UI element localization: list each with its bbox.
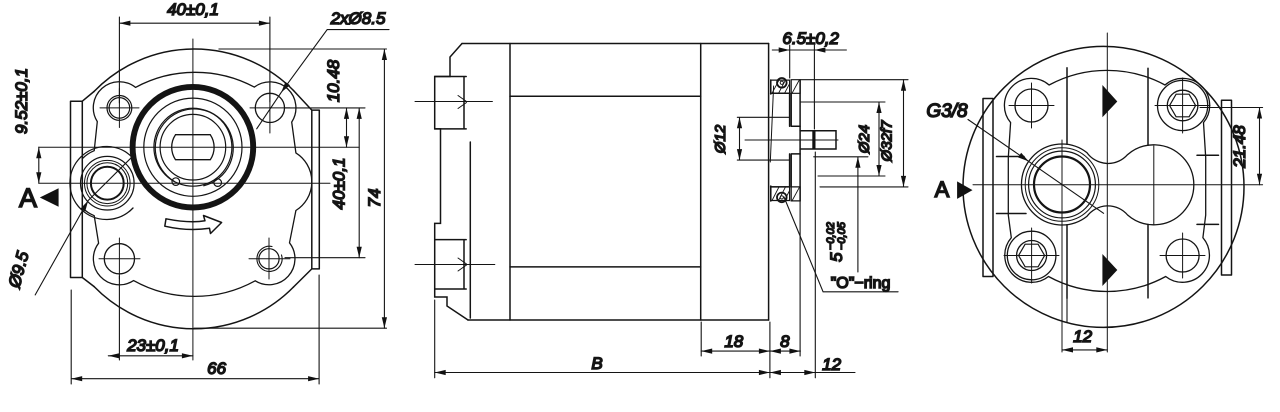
hole TL crosshair [1009, 83, 1054, 128]
B arrow left [435, 370, 446, 375]
left mounting tab [71, 92, 95, 287]
body circle [963, 46, 1244, 327]
circlip eyelet left [172, 178, 180, 186]
flange face double line [769, 44, 771, 321]
o-ring leader slant line [770, 86, 773, 162]
screw bottom-left head [1017, 241, 1047, 271]
74 arrows [382, 49, 387, 60]
shaft horizontal centerline [39, 146, 359, 148]
dim 74 vertical line [383, 49, 385, 328]
circlip open ring [151, 104, 239, 189]
top port axis [415, 101, 492, 103]
arrowheads right view [957, 85, 1262, 353]
bolt hole top-left inner [109, 98, 130, 119]
flange face clover outline [82, 72, 312, 296]
extension line bottom holes right [285, 257, 365, 259]
cover boss bottom chamfer marks [458, 258, 467, 271]
svg-text:2xØ8.5: 2xØ8.5 [330, 9, 386, 28]
dim line Ø32f7 [903, 80, 905, 187]
screw top-right hex [1170, 94, 1196, 117]
port vertical centerline [1061, 140, 1063, 352]
B arrow right [759, 370, 770, 375]
5 arrow up [855, 157, 860, 168]
body/flange joint [700, 44, 702, 321]
port outer circle [1029, 151, 1096, 218]
66 arrows [71, 376, 82, 381]
bearing seat thick ring [133, 87, 254, 208]
top-right hole crosshair [250, 83, 290, 133]
rear cover profile [435, 44, 468, 321]
svg-text:"O"−ring: "O"−ring [831, 275, 891, 292]
extension line top holes right [285, 107, 365, 109]
2xØ8.5 leader arrow [281, 82, 290, 93]
port bore circle [1034, 157, 1090, 213]
seal ring [144, 98, 242, 196]
Ø32f7 arrows [901, 80, 906, 91]
o-ring leader [784, 197, 898, 292]
bolt hole bottom-right [1166, 239, 1199, 272]
screw bottom-left hex [1019, 244, 1045, 267]
shaft with flats [172, 135, 214, 160]
vertical centerline [192, 39, 194, 360]
o-ring groove bottom block [771, 187, 790, 201]
Ø9.5 leader arrow [80, 201, 88, 212]
Ø24 arrows [876, 102, 881, 113]
cover inner face line [469, 142, 471, 318]
ext line flange top right [801, 79, 908, 81]
section arrow A left [40, 188, 59, 206]
svg-text:Ø12: Ø12 [712, 124, 729, 154]
leader G3/8 [968, 120, 1104, 214]
rear body circle top arc [94, 49, 294, 91]
dim 12 bottom [1062, 298, 1107, 350]
svg-text:8: 8 [780, 332, 790, 351]
pilot edges [771, 93, 790, 187]
arrowheads left view [36, 21, 387, 382]
svg-text:21.48: 21.48 [1230, 125, 1249, 169]
40 vert arrows [357, 108, 362, 119]
dimensions middle view [435, 45, 908, 378]
port horizontal centerline [39, 182, 330, 184]
bottom port axis [415, 264, 495, 266]
cover/body joint [509, 44, 511, 321]
G3/8 leader arrow [1018, 153, 1029, 162]
dim 21.48 [1200, 108, 1263, 185]
ext lines bottom dims [701, 152, 815, 378]
svg-text:G3/8: G3/8 [926, 101, 968, 122]
screw bottom-left washer [1007, 231, 1056, 280]
dimensions left view [35, 17, 389, 384]
6.5 arrows outside [779, 47, 790, 52]
dim 5 line [814, 157, 868, 272]
cover boss bottom joint [435, 240, 467, 289]
bottom-right hole crosshair [249, 238, 290, 279]
groove counter block bottom [791, 187, 800, 201]
ext line 24 top [800, 101, 885, 103]
svg-text:40±0,1: 40±0,1 [167, 0, 219, 19]
svg-text:23±0,1: 23±0,1 [126, 336, 179, 355]
arrowheads middle view [435, 47, 906, 375]
extension for 74 bottom [194, 327, 387, 329]
screw BL crosshair [1004, 228, 1059, 283]
o-ring bottom circle [777, 193, 787, 203]
horizontal centerline [973, 184, 1263, 186]
dim 18 and 8 line [701, 350, 800, 352]
o-ring top hatch [772, 80, 790, 93]
centerlines left view [39, 39, 359, 360]
dim Ø12 [737, 117, 789, 160]
face channel bottom edges [1067, 224, 1148, 298]
svg-text:12: 12 [1073, 327, 1092, 346]
dim 10.48 line [346, 108, 348, 147]
shaft stub [800, 131, 836, 149]
o-ring groove top block [771, 80, 790, 93]
dim line Ø24 [878, 102, 880, 176]
ext line 24 bottom [818, 175, 885, 177]
port thread circle b [87, 163, 128, 204]
23 arrows [108, 353, 119, 358]
dim 23±0,1 [108, 276, 193, 360]
svg-text:Ø24: Ø24 [856, 125, 873, 154]
svg-text:5: 5 [827, 252, 846, 262]
right lobe vertical centerline [1153, 146, 1155, 224]
vertical centerline [1106, 33, 1108, 352]
rotation direction arrow [165, 216, 222, 234]
side slot left [997, 157, 1027, 214]
bolt hole bottom-right counterbore arc [257, 246, 282, 271]
rear body circle bottom arc [94, 287, 294, 329]
svg-text:−0,05: −0,05 [836, 221, 848, 250]
suction port boss arc [70, 147, 133, 220]
text 5 tolerance [825, 221, 848, 262]
svg-text:40±0,1: 40±0,1 [330, 158, 349, 210]
cover boss top joint [435, 77, 467, 129]
svg-text:6.5±0,2: 6.5±0,2 [782, 29, 839, 48]
bolt hole top-left [1015, 89, 1048, 122]
centerlines middle view [415, 102, 838, 265]
flow triangle top [1102, 85, 1117, 117]
side slot right [1197, 155, 1219, 224]
cover boss top chamfer marks [458, 96, 467, 109]
left tab [983, 99, 993, 277]
svg-text:10.48: 10.48 [324, 59, 343, 102]
right tab [1222, 100, 1232, 275]
bottom-left hole crosshair [99, 238, 140, 279]
18 arrows [701, 349, 712, 354]
dim B and 12 line [435, 372, 855, 374]
leader Ø9.5 [35, 155, 134, 295]
dim 40±0,1 top [119, 17, 270, 103]
o-ring bottom hatch [772, 187, 790, 201]
9.52 arrows [36, 147, 41, 158]
gear section top line [510, 95, 701, 97]
screw top-right head [1167, 90, 1198, 121]
right mounting tab [294, 91, 320, 288]
mating face line [799, 80, 801, 201]
rear plate clover outline [1004, 70, 1209, 291]
ext line 32 bottom [820, 186, 908, 188]
svg-text:66: 66 [207, 359, 226, 378]
bolt hole top-right [255, 93, 284, 122]
dim 9.52 line [38, 147, 40, 183]
8 arrows [770, 349, 781, 354]
centerlines right view [973, 33, 1263, 352]
10.48 arrows [344, 108, 349, 119]
svg-text:12: 12 [822, 355, 841, 374]
pump body outline [462, 44, 769, 321]
hole BR crosshair [1160, 233, 1205, 278]
gear section bottom line [510, 266, 701, 268]
svg-text:9.52±0,1: 9.52±0,1 [12, 68, 31, 134]
inner ring [160, 114, 226, 180]
port outer circle [81, 156, 135, 210]
screw TR crosshair [1155, 78, 1210, 133]
dimensions right view [968, 108, 1263, 350]
svg-text:Ø32f7: Ø32f7 [879, 120, 896, 163]
leader 2xØ8.5 [257, 30, 389, 129]
Ø12 arrows [737, 117, 742, 128]
top-left hole crosshair [100, 89, 139, 128]
retaining ring circle [154, 108, 232, 186]
o-ring top circle [777, 78, 787, 88]
svg-text:B: B [591, 354, 602, 373]
port bore circle [91, 167, 124, 200]
bolt hole bottom-right inner [259, 249, 279, 269]
gear chamber peanut boss [1021, 144, 1193, 225]
12 arrows [770, 370, 781, 375]
dim 6.5±0,2 [772, 45, 846, 129]
dim 66 [71, 275, 319, 384]
bolt hole bottom-left [104, 244, 134, 274]
circlip groove on shaft [812, 131, 815, 149]
svg-text:74: 74 [365, 189, 384, 208]
groove counter block top [791, 80, 800, 94]
face channel top edges [1067, 68, 1148, 145]
port thread outer circle [1025, 148, 1099, 222]
ext line B left [434, 300, 436, 378]
svg-text:A: A [19, 183, 37, 213]
12 arrows [1062, 347, 1073, 352]
svg-text:A: A [935, 177, 950, 202]
extension for 74 top [219, 48, 387, 50]
screw top-right washer [1158, 80, 1208, 130]
circlip eyelet right [214, 179, 222, 187]
dim 40±0,1 vertical line [358, 108, 360, 258]
bolt hole top-left outer [107, 96, 132, 121]
pilot face [789, 93, 791, 187]
21.48 arrows [1257, 108, 1262, 119]
shaft axis [745, 139, 838, 141]
port thread circle a [85, 160, 131, 206]
shaft shoulder [791, 93, 800, 187]
40 top arrows [119, 21, 130, 26]
section arrow A right [957, 181, 972, 199]
flow triangle bottom [1102, 254, 1117, 286]
svg-text:18: 18 [724, 332, 743, 351]
